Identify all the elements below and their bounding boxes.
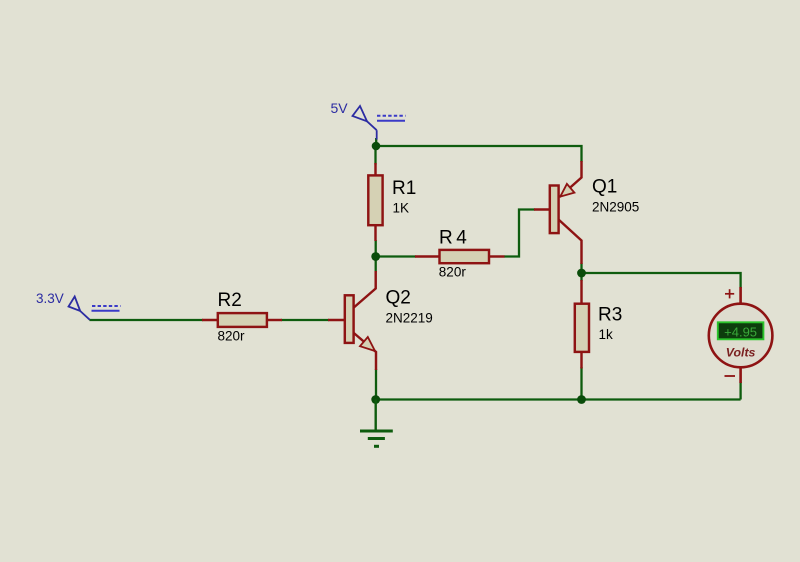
wire: R1 bottom to mid junction — [375, 240, 377, 257]
svg-text:1K: 1K — [393, 201, 410, 216]
plus mark — [725, 289, 734, 298]
transistor Q2 — [328, 271, 376, 370]
wire: 3.3V terminal to R2 left — [90, 319, 204, 321]
svg-text:R2: R2 — [218, 290, 242, 311]
emitter arrow — [360, 337, 375, 351]
svg-text:Q1: Q1 — [592, 177, 617, 198]
minus mark — [725, 375, 736, 377]
wire: 5V terminal to junction — [375, 138, 377, 147]
svg-text:R4: R4 — [439, 228, 470, 249]
wire: bottom rail — [376, 398, 741, 400]
minus pin — [739, 367, 742, 384]
ground — [360, 400, 393, 447]
resistor R3 — [575, 280, 589, 369]
svg-text:820r: 820r — [439, 265, 467, 280]
wire: Q1 collector to node — [580, 263, 582, 273]
wire: R2 right to Q2 base — [281, 319, 329, 321]
svg-text:820r: 820r — [218, 329, 246, 344]
wire: voltmeter minus to bottom rail — [739, 382, 741, 400]
svg-text:2N2219: 2N2219 — [386, 311, 433, 326]
display — [718, 322, 764, 339]
base pin — [534, 208, 551, 210]
svg-text:3.3V: 3.3V — [36, 291, 64, 306]
collector lead — [354, 271, 376, 308]
base bar — [550, 186, 559, 234]
plus pin — [739, 287, 742, 305]
power terminal 3.3V — [69, 297, 121, 320]
transistor Q1 — [534, 161, 582, 264]
emitter lead — [354, 333, 376, 370]
wire: collector node to voltmeter plus — [582, 273, 741, 288]
wire: top rail from 5V node to Q1 emitter corner — [376, 146, 582, 162]
emitter lead — [560, 161, 582, 197]
node: 5V rail junction — [372, 142, 381, 151]
wire: R3 bottom to bottom rail — [580, 367, 582, 400]
wire: node to R1 top — [374, 146, 376, 165]
base bar — [345, 295, 354, 343]
wire: mid junction to R4 left — [376, 255, 416, 257]
wire: R4 right to Q1 base — [504, 210, 535, 257]
resistor R4 — [415, 250, 505, 263]
resistor R1 — [368, 163, 382, 241]
wire: node to R3 top — [580, 273, 582, 281]
svg-text:1k: 1k — [599, 327, 614, 342]
resistor R2 — [202, 313, 282, 327]
svg-text:R3: R3 — [598, 305, 622, 326]
emitter arrow — [560, 184, 574, 197]
node: R3 bottom rail junction — [577, 395, 586, 404]
svg-text:R1: R1 — [392, 178, 416, 199]
collector lead — [559, 220, 582, 265]
voltmeter — [709, 287, 773, 383]
meter body — [709, 304, 773, 368]
node: R1/R4/Q2 junction — [371, 252, 380, 261]
svg-text:Q2: Q2 — [386, 288, 411, 309]
base pin — [328, 319, 345, 321]
svg-text:2N2905: 2N2905 — [592, 200, 639, 215]
node: ground junction — [371, 395, 380, 404]
wire: mid junction down to Q2 collector — [375, 257, 377, 273]
node: Q1 collector / R3 / meter junction — [577, 269, 586, 278]
svg-text:5V: 5V — [331, 100, 349, 116]
svg-text:+4.95: +4.95 — [724, 325, 757, 340]
svg-text:Volts: Volts — [726, 345, 756, 359]
power terminal 5V — [353, 106, 406, 140]
wire: Q2 emitter to ground junction — [375, 369, 377, 400]
